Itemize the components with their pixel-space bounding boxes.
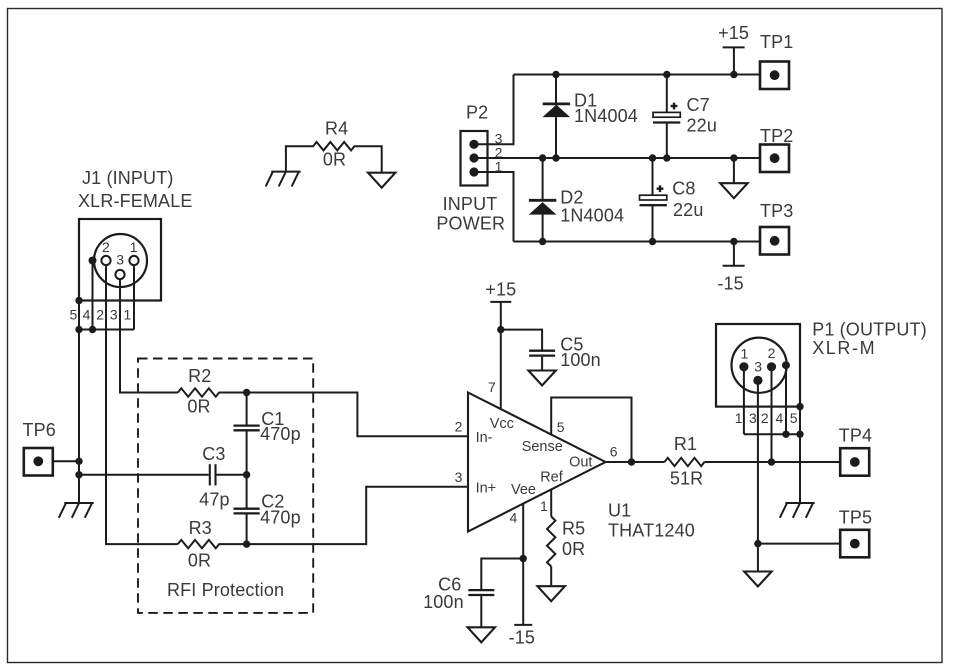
- svg-text:22u: 22u: [687, 115, 717, 135]
- svg-text:5: 5: [557, 419, 565, 435]
- testpoint TP5: [839, 508, 872, 558]
- wire J1 pin2 down to R3: [106, 265, 178, 544]
- wire P1 pin3 down: [757, 383, 759, 544]
- svg-text:2: 2: [96, 306, 104, 322]
- power -15 supply flag: [717, 242, 744, 294]
- capacitor C6 100n: [423, 559, 523, 628]
- node P1 pin2 output: [768, 458, 775, 465]
- svg-text:7: 7: [488, 379, 496, 395]
- svg-text:0R: 0R: [562, 539, 585, 559]
- wire P2 pin1 to -15 rail: [474, 172, 514, 242]
- svg-text:In+: In+: [476, 480, 497, 496]
- svg-text:5: 5: [70, 306, 78, 322]
- wire C3 line: [79, 474, 209, 476]
- node C5 branch: [497, 326, 504, 333]
- ground triangle R4 right: [368, 173, 395, 188]
- node D2 top: [539, 154, 546, 161]
- resistor R4 0R: [286, 118, 382, 172]
- svg-text:2: 2: [768, 345, 776, 361]
- wire P1 box edge down: [799, 407, 801, 503]
- svg-text:Out: Out: [569, 455, 592, 471]
- svg-text:0R: 0R: [323, 150, 346, 170]
- node D2 bottom: [539, 238, 546, 245]
- svg-text:RFI Protection: RFI Protection: [167, 580, 284, 600]
- capacitor C5 100n: [501, 330, 601, 371]
- node D1 top rail: [552, 71, 559, 78]
- svg-text:3: 3: [110, 306, 118, 322]
- svg-text:R3: R3: [189, 518, 212, 538]
- svg-text:3: 3: [455, 469, 463, 485]
- svg-text:2: 2: [455, 419, 463, 435]
- wire P1 tie: [744, 433, 800, 435]
- svg-text:-15: -15: [509, 628, 535, 648]
- node P1 pin3 TP5: [754, 540, 761, 547]
- wire Vee pin4: [522, 504, 524, 625]
- node -15 rail tick: [730, 238, 737, 245]
- svg-text:+15: +15: [485, 279, 516, 299]
- svg-text:1: 1: [741, 346, 749, 362]
- svg-text:-15: -15: [717, 273, 743, 293]
- wire Vcc pin7: [500, 302, 502, 409]
- svg-text:1: 1: [540, 498, 548, 514]
- node P1 box corner: [796, 403, 803, 410]
- svg-text:3: 3: [749, 410, 757, 426]
- svg-text:J1 (INPUT): J1 (INPUT): [82, 168, 174, 188]
- wire TP6 to ground bus: [53, 460, 79, 462]
- node tie edge P1: [796, 431, 803, 438]
- RFI Protection dashed box: [138, 359, 313, 613]
- svg-text:0R: 0R: [188, 550, 211, 570]
- svg-text:R2: R2: [188, 366, 211, 386]
- svg-text:22u: 22u: [673, 200, 703, 220]
- wire Ref pin1: [550, 489, 552, 516]
- wire pin3 to ground: [757, 544, 759, 572]
- wire -15 bottom rail: [514, 241, 761, 243]
- node gnd rail tick: [730, 154, 737, 161]
- P1 pin row labels: [735, 410, 798, 426]
- node +15 rail tick: [730, 71, 737, 78]
- resistor R5 0R: [547, 517, 585, 587]
- svg-text:1: 1: [130, 239, 138, 255]
- svg-text:2: 2: [761, 410, 769, 426]
- testpoint TP2: [760, 126, 793, 172]
- connector P2: [436, 103, 505, 234]
- capacitor C1 470p: [234, 393, 301, 475]
- testpoint TP1: [760, 32, 793, 89]
- node out sense: [628, 458, 635, 465]
- svg-text:1N4004: 1N4004: [574, 106, 638, 126]
- wire J1 pin1 down: [133, 265, 135, 330]
- svg-text:100n: 100n: [560, 350, 601, 370]
- svg-text:TP6: TP6: [23, 420, 56, 440]
- connector J1 XLR-FEMALE: [78, 168, 193, 301]
- node J1 shell dot: [89, 257, 97, 265]
- node tie shell: [89, 326, 96, 333]
- svg-text:Ref: Ref: [540, 470, 564, 486]
- svg-text:4: 4: [510, 510, 518, 526]
- svg-text:R5: R5: [562, 519, 585, 539]
- svg-text:1: 1: [735, 410, 743, 426]
- J1 pin row labels: [70, 306, 132, 322]
- svg-text:P1 (OUTPUT): P1 (OUTPUT): [812, 319, 927, 339]
- power +15 supply flag: [718, 23, 749, 75]
- wire J1 shell down: [92, 261, 94, 330]
- resistor R2 0R: [178, 366, 247, 416]
- node R3 C2: [243, 540, 250, 547]
- wire P1 shell down: [785, 365, 787, 434]
- svg-text:2: 2: [102, 239, 110, 255]
- chassis ground R4 left: [266, 172, 301, 187]
- node C7 top: [663, 71, 670, 78]
- svg-text:47p: 47p: [199, 490, 229, 510]
- node C7 bottom: [663, 154, 670, 161]
- svg-text:INPUT: INPUT: [443, 194, 498, 214]
- wire P2 pin3 to +15 rail: [474, 75, 514, 145]
- node tie left: [75, 326, 82, 333]
- chassis ground J1: [59, 503, 94, 518]
- svg-text:C8: C8: [672, 179, 695, 199]
- svg-text:U1: U1: [608, 501, 631, 521]
- svg-text:Sense: Sense: [522, 439, 563, 455]
- svg-text:TP2: TP2: [760, 126, 793, 146]
- svg-text:470p: 470p: [260, 424, 301, 444]
- svg-text:TP3: TP3: [760, 201, 793, 221]
- svg-text:470p: 470p: [260, 507, 301, 527]
- capacitor C2 470p: [234, 475, 301, 544]
- node C8 top: [649, 154, 656, 161]
- svg-text:100n: 100n: [423, 592, 464, 612]
- testpoint TP4: [839, 425, 872, 475]
- power -15 supply flag U1: [509, 625, 535, 648]
- svg-text:R1: R1: [674, 434, 697, 454]
- node R2 C1: [243, 389, 250, 396]
- resistor R1 51R: [665, 434, 705, 489]
- svg-text:4: 4: [776, 410, 784, 426]
- ground triangle R5: [538, 586, 565, 601]
- wire P1 pin2 down: [771, 369, 773, 462]
- svg-text:5: 5: [790, 410, 798, 426]
- capacitor C7 22u: [653, 75, 717, 159]
- wire P1 pin1 down: [743, 369, 745, 434]
- svg-text:1: 1: [124, 306, 132, 322]
- svg-text:TP1: TP1: [760, 32, 793, 52]
- wire J1 pin3 down to R2: [120, 279, 178, 393]
- svg-text:Vcc: Vcc: [490, 416, 514, 432]
- wire R1 to TP4: [705, 461, 841, 463]
- chassis ground P1: [780, 503, 815, 518]
- op-amp U1 THAT1240: [455, 379, 695, 541]
- capacitor C3 47p: [199, 444, 246, 510]
- node C6 branch: [520, 555, 527, 562]
- node C3 line start: [75, 471, 82, 478]
- svg-text:TP4: TP4: [839, 425, 872, 445]
- svg-text:Vee: Vee: [511, 482, 536, 498]
- svg-text:+15: +15: [718, 23, 749, 43]
- resistor R3 0R: [178, 518, 247, 571]
- svg-text:In-: In-: [476, 430, 493, 446]
- ground triangle C5: [528, 371, 555, 386]
- svg-text:51R: 51R: [670, 468, 703, 488]
- wire R2 out to step: [247, 393, 468, 437]
- svg-text:0R: 0R: [187, 397, 210, 417]
- wire R3 out to step: [247, 487, 468, 544]
- wire Sense loop: [551, 398, 631, 463]
- wire P2 pin2 ground rail: [474, 157, 760, 159]
- diode D2 1N4004: [529, 158, 624, 242]
- svg-text:THAT1240: THAT1240: [608, 521, 695, 541]
- wire J1 box edge down: [78, 301, 80, 504]
- power +15 supply flag U1: [485, 279, 516, 302]
- wire output: [606, 461, 665, 463]
- node D1 bottom: [552, 154, 559, 161]
- wire +15 top rail: [514, 74, 761, 76]
- svg-text:1N4004: 1N4004: [560, 205, 624, 225]
- ground triangle C6: [468, 627, 495, 642]
- svg-text:3: 3: [754, 358, 762, 374]
- diode D1 1N4004: [543, 75, 638, 159]
- wire TP5 line: [758, 543, 840, 545]
- connector P1 XLR-M: [716, 319, 927, 406]
- svg-text:C3: C3: [202, 444, 225, 464]
- svg-text:POWER: POWER: [436, 213, 505, 233]
- svg-text:XLR-M: XLR-M: [812, 338, 876, 358]
- wire J1 tie: [79, 329, 134, 331]
- node tie shell P1: [782, 431, 789, 438]
- node TP6 junction: [75, 458, 82, 465]
- node C3 C1 C2: [243, 471, 250, 478]
- svg-text:P2: P2: [466, 103, 488, 123]
- testpoint TP3: [760, 201, 793, 254]
- testpoint TP6: [23, 420, 56, 476]
- svg-text:6: 6: [610, 444, 618, 460]
- node C8 bottom: [649, 238, 656, 245]
- svg-text:TP5: TP5: [839, 508, 872, 528]
- capacitor C8 22u: [640, 158, 704, 242]
- ground triangle P1 pin3: [744, 572, 771, 587]
- ground triangle mid rail: [720, 158, 747, 198]
- svg-text:3: 3: [116, 252, 124, 268]
- node J1 box corner: [75, 297, 82, 304]
- svg-text:C7: C7: [687, 95, 710, 115]
- svg-text:XLR-FEMALE: XLR-FEMALE: [78, 191, 193, 211]
- node P1 shell dot: [782, 361, 790, 369]
- svg-text:4: 4: [83, 306, 91, 322]
- svg-text:R4: R4: [325, 118, 348, 138]
